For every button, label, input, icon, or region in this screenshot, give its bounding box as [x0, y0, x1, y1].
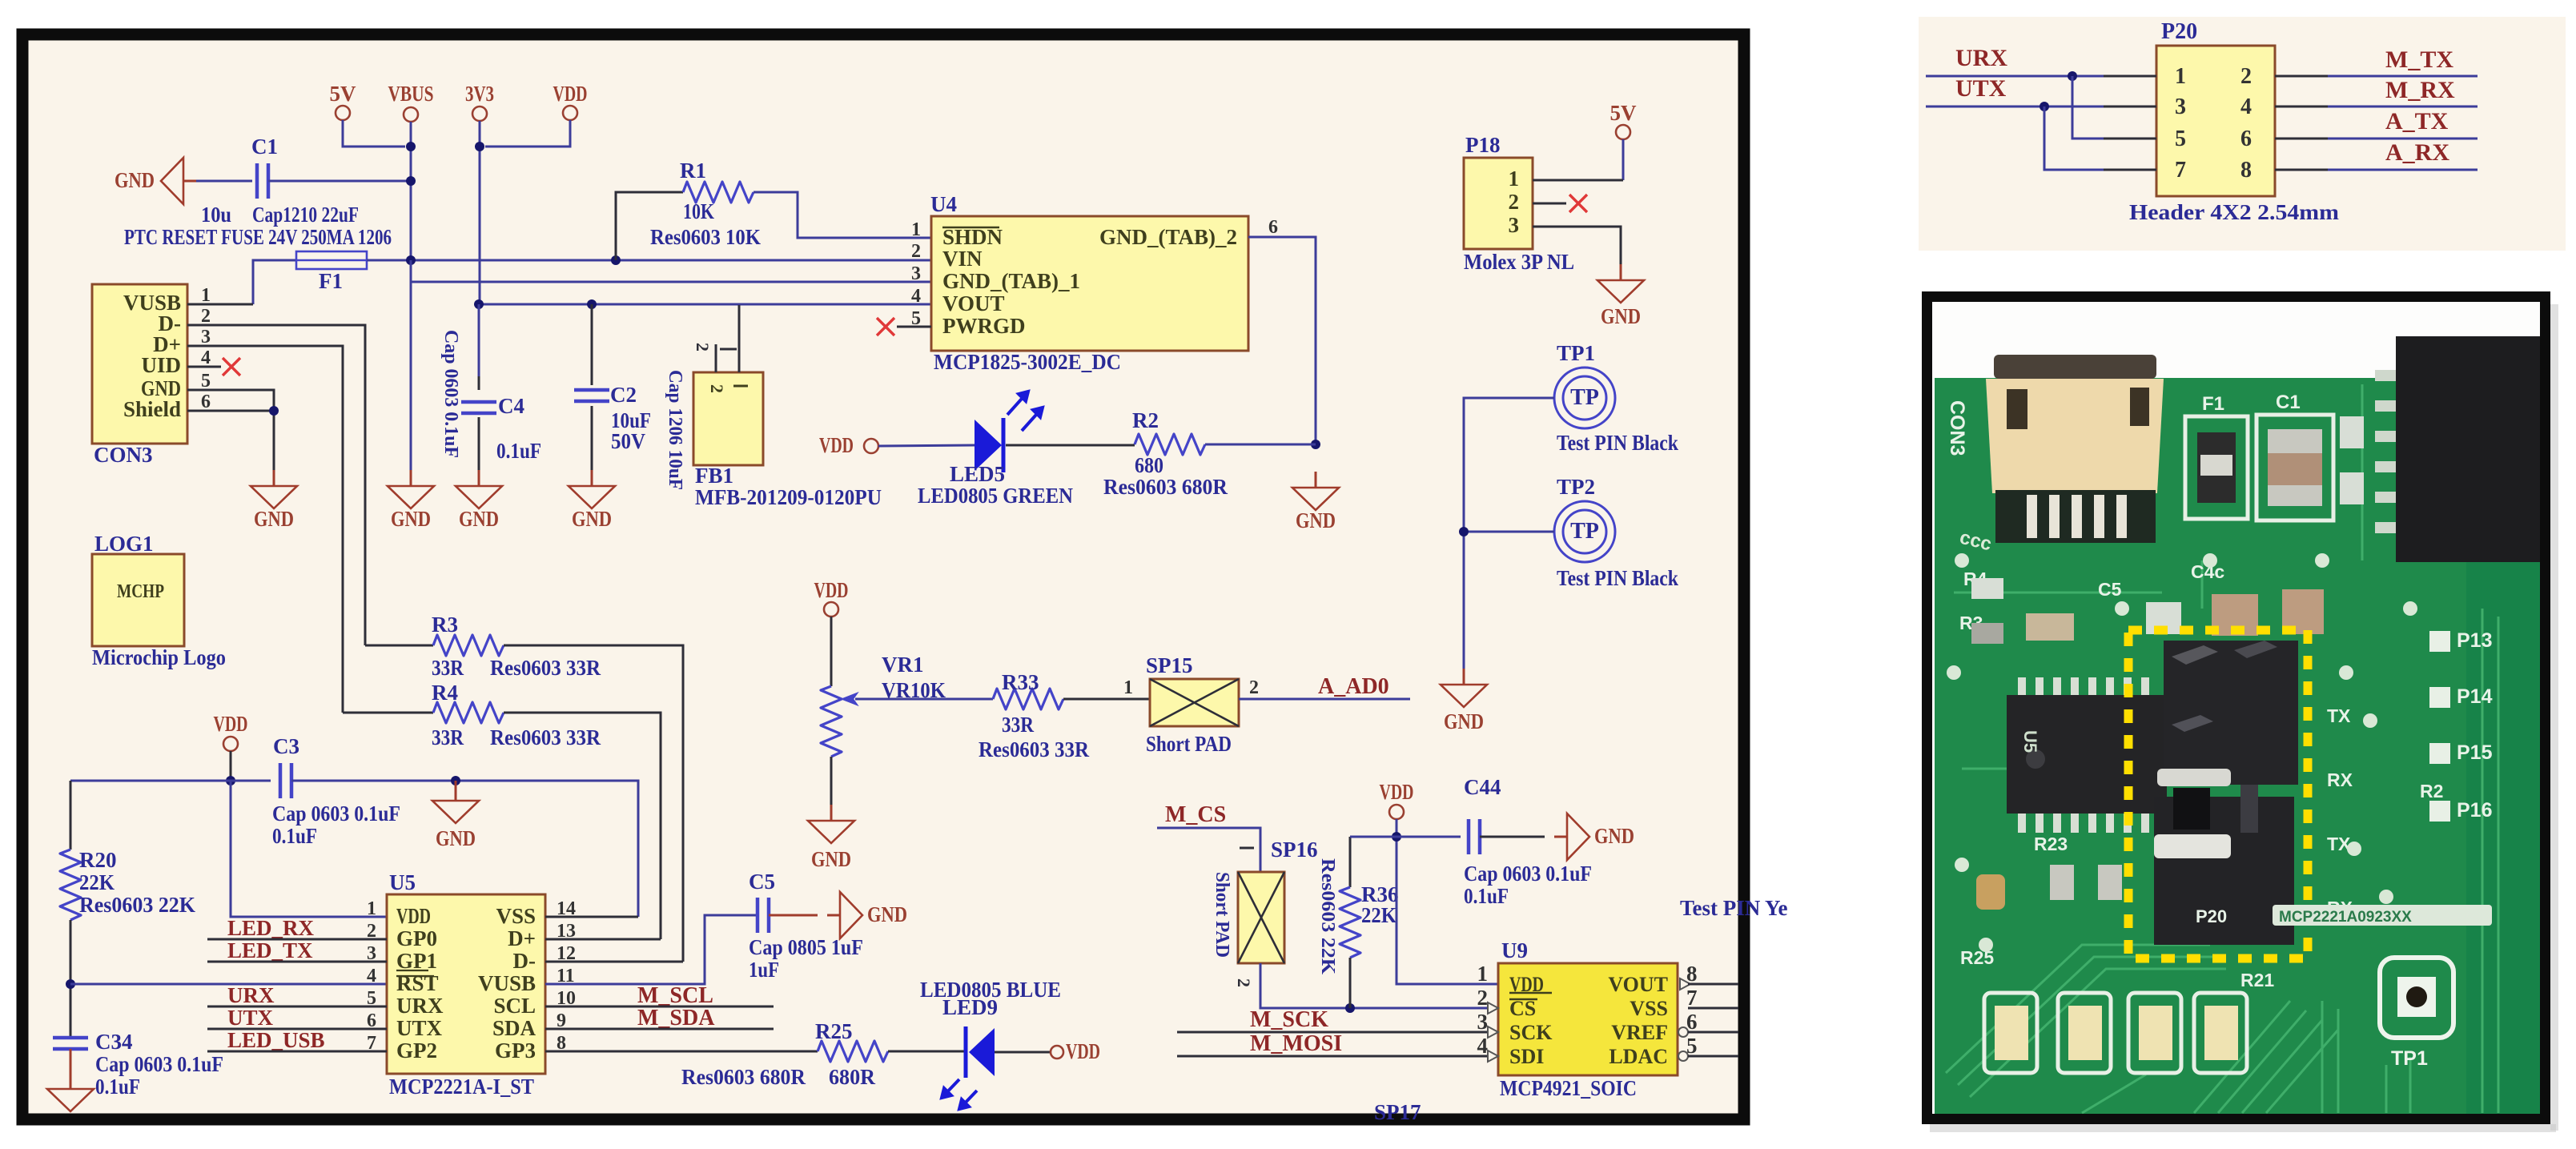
PCB photo frame	[1927, 297, 2559, 1133]
wire	[187, 410, 274, 412]
svg-text:VDD: VDD	[553, 82, 588, 106]
svg-text:URX: URX	[1955, 45, 2007, 71]
resistor R33	[979, 670, 1089, 761]
wire	[1464, 531, 1554, 533]
no connect	[223, 358, 240, 376]
wire	[1533, 227, 1621, 264]
svg-text:Cap 1206 10uF: Cap 1206 10uF	[665, 370, 685, 490]
wire	[1260, 963, 1498, 1008]
svg-text:Res0603 22K: Res0603 22K	[1317, 858, 1338, 974]
svg-text:2: 2	[1509, 190, 1520, 214]
wire pin2 stub	[1533, 203, 1566, 205]
svg-text:10u: 10u	[201, 203, 231, 227]
connector CON3	[92, 284, 211, 467]
label Cap1210 22uF	[252, 203, 359, 227]
svg-text:U9: U9	[1501, 938, 1528, 962]
svg-text:1: 1	[911, 219, 921, 240]
svg-text:1: 1	[367, 898, 376, 919]
svg-text:VDD: VDD	[814, 578, 849, 602]
schematic panel background	[17, 29, 1750, 1125]
svg-text:GND: GND	[1296, 508, 1336, 532]
svg-text:LED9: LED9	[942, 995, 998, 1019]
svg-text:2: 2	[2240, 64, 2252, 89]
svg-text:CON3: CON3	[1946, 400, 1968, 456]
svg-text:Res0603 33R: Res0603 33R	[979, 737, 1089, 761]
label PTC RESET FUSE	[124, 225, 392, 249]
svg-text:U5: U5	[2020, 730, 2040, 753]
resistor R2	[1103, 408, 1228, 499]
svg-text:4: 4	[911, 286, 921, 307]
wire	[1006, 444, 1135, 447]
svg-text:4: 4	[2240, 94, 2252, 119]
ground	[432, 781, 479, 850]
wire	[545, 961, 683, 963]
resistor R20	[60, 781, 195, 1038]
test point TP2	[1554, 475, 1678, 590]
svg-text:Microchip Logo: Microchip Logo	[92, 645, 226, 669]
svg-text:GND: GND	[391, 507, 431, 531]
svg-text:MCP1825-3002E_DC: MCP1825-3002E_DC	[934, 350, 1121, 374]
svg-text:GND: GND	[572, 507, 612, 531]
svg-text:CON3: CON3	[94, 443, 153, 467]
test point TP1	[1554, 341, 1678, 455]
svg-text:680R: 680R	[829, 1065, 875, 1089]
ground	[1554, 814, 1634, 860]
svg-text:Res0603 10K: Res0603 10K	[650, 225, 761, 249]
svg-text:R33: R33	[1002, 670, 1039, 694]
capacitor C1	[251, 135, 411, 199]
svg-text:LED_TX: LED_TX	[227, 938, 313, 962]
resistor R4	[343, 681, 661, 939]
svg-text:TX: TX	[2327, 705, 2351, 726]
svg-text:Test PIN Ye: Test PIN Ye	[1680, 896, 1788, 920]
svg-text:LOG1: LOG1	[94, 532, 154, 556]
svg-text:R21: R21	[2240, 970, 2274, 990]
svg-text:C1: C1	[251, 135, 278, 159]
svg-text:M_SCK: M_SCK	[1250, 1007, 1328, 1032]
power port VDD	[814, 578, 849, 686]
svg-text:22K: 22K	[79, 870, 115, 894]
svg-text:0.1uF: 0.1uF	[1464, 884, 1509, 908]
svg-text:TP1: TP1	[1557, 341, 1595, 365]
junction	[1392, 832, 1401, 842]
svg-text:MCHP: MCHP	[117, 581, 164, 602]
wire	[888, 1051, 964, 1053]
svg-text:GND_(TAB)_1: GND_(TAB)_1	[942, 269, 1080, 293]
junction	[1459, 527, 1469, 536]
wire	[411, 281, 931, 283]
junction	[406, 255, 416, 265]
IC U9 MCP4921_SOIC	[1477, 938, 1698, 1100]
wire pin6	[1248, 237, 1316, 444]
net label M_CS	[1165, 802, 1226, 827]
svg-text:4: 4	[367, 966, 376, 986]
wire	[187, 325, 365, 645]
svg-text:Res0603 22K: Res0603 22K	[79, 893, 195, 917]
svg-text:C44: C44	[1464, 775, 1501, 799]
wire	[1688, 1031, 1738, 1034]
junction	[406, 176, 416, 186]
svg-text:Cap 0603 0.1uF: Cap 0603 0.1uF	[440, 330, 461, 458]
svg-text:VDD: VDD	[1066, 1039, 1100, 1063]
PCB photo	[1932, 302, 2543, 1116]
svg-text:680: 680	[1135, 453, 1163, 477]
svg-text:VREF: VREF	[1611, 1021, 1668, 1044]
svg-text:C4: C4	[498, 394, 524, 418]
svg-text:6: 6	[201, 392, 211, 412]
svg-text:URX: URX	[396, 994, 444, 1018]
svg-text:TP2: TP2	[1557, 475, 1595, 499]
wire	[1063, 698, 1150, 701]
ground	[456, 470, 502, 531]
junction	[474, 299, 484, 309]
svg-text:Res0603 680R: Res0603 680R	[1103, 475, 1228, 499]
svg-text:VOUT: VOUT	[942, 291, 1004, 315]
junction	[66, 979, 75, 989]
short pad SP15	[1123, 653, 1259, 756]
wire	[2328, 106, 2478, 108]
svg-text:GND: GND	[115, 168, 155, 192]
svg-text:D+: D+	[508, 926, 536, 950]
svg-text:A_TX: A_TX	[2385, 108, 2449, 135]
junction	[2040, 102, 2049, 111]
svg-text:VDD: VDD	[214, 712, 248, 736]
wire	[2072, 76, 2104, 139]
svg-text:LED5: LED5	[950, 462, 1005, 486]
svg-text:Res0603 33R: Res0603 33R	[490, 656, 601, 680]
svg-text:C1: C1	[2276, 392, 2301, 413]
svg-text:GND: GND	[867, 902, 907, 926]
svg-text:4: 4	[201, 348, 211, 368]
svg-text:5: 5	[2175, 127, 2186, 151]
svg-text:U5: U5	[389, 870, 416, 894]
junction	[226, 776, 235, 785]
svg-text:VDD: VDD	[396, 904, 431, 928]
svg-text:0.1uF: 0.1uF	[272, 824, 317, 848]
svg-text:RX: RX	[2327, 769, 2353, 790]
wire	[545, 916, 638, 918]
svg-text:GP2: GP2	[396, 1039, 437, 1063]
svg-text:1: 1	[2175, 64, 2186, 89]
svg-text:VUSB: VUSB	[478, 971, 536, 995]
wire	[545, 915, 758, 984]
wire	[1157, 828, 1260, 872]
svg-text:C34: C34	[95, 1030, 133, 1054]
svg-text:UID: UID	[141, 353, 181, 377]
ground	[251, 470, 297, 531]
label 10u	[201, 203, 231, 227]
wire	[187, 390, 274, 470]
potentiometer VR1	[821, 653, 946, 805]
svg-text:SP17: SP17	[1374, 1100, 1421, 1124]
svg-text:8: 8	[2240, 158, 2252, 183]
svg-text:C2: C2	[610, 383, 637, 407]
wire	[1350, 836, 1461, 838]
svg-text:GND: GND	[436, 826, 476, 850]
svg-text:Molex 3P NL: Molex 3P NL	[1464, 250, 1574, 274]
svg-text:3: 3	[201, 327, 211, 348]
svg-text:2: 2	[693, 343, 713, 352]
short pad SP16	[1212, 838, 1318, 987]
net label M_TX	[2385, 46, 2453, 73]
resistor R1	[616, 159, 931, 260]
svg-text:33R: 33R	[432, 725, 464, 749]
svg-text:F1: F1	[2202, 393, 2224, 415]
net label LED_TX	[207, 938, 387, 962]
svg-text:C5: C5	[749, 870, 775, 894]
ground	[1597, 264, 1644, 328]
power port VDD	[1380, 780, 1499, 984]
svg-text:Res0603 33R: Res0603 33R	[490, 725, 601, 749]
svg-text:22K: 22K	[1361, 903, 1397, 927]
svg-text:Cap1210 22uF: Cap1210 22uF	[252, 203, 359, 227]
junction	[475, 142, 484, 151]
wire	[231, 781, 387, 917]
resistor R36	[1317, 837, 1399, 1008]
svg-text:SDA: SDA	[492, 1016, 536, 1040]
wire	[187, 346, 343, 713]
svg-text:1: 1	[1509, 167, 1520, 191]
wire	[1464, 398, 1554, 669]
svg-text:GND_(TAB)_2: GND_(TAB)_2	[1099, 225, 1237, 249]
svg-text:Shield: Shield	[123, 397, 181, 421]
svg-text:CS: CS	[1509, 997, 1536, 1020]
svg-text:RST: RST	[396, 971, 439, 995]
svg-text:0.1uF: 0.1uF	[496, 439, 541, 463]
svg-text:R20: R20	[79, 848, 117, 872]
power port 3V3	[465, 82, 494, 304]
svg-text:A_RX: A_RX	[2385, 139, 2449, 166]
power port 5V	[330, 82, 406, 147]
svg-text:MCP2221A-I_ST: MCP2221A-I_ST	[389, 1075, 534, 1099]
svg-text:2: 2	[707, 384, 727, 393]
junction	[451, 776, 460, 785]
svg-text:R2: R2	[2420, 781, 2443, 801]
wire	[410, 260, 412, 470]
connector P18 Molex	[1464, 133, 1574, 274]
svg-text:VSS: VSS	[496, 904, 536, 928]
svg-text:SP16: SP16	[1271, 838, 1318, 862]
svg-text:3: 3	[2175, 94, 2186, 119]
svg-text:LED_USB: LED_USB	[227, 1028, 325, 1052]
wire	[1239, 698, 1410, 701]
svg-text:Short PAD: Short PAD	[1212, 872, 1232, 958]
wire pin4 stub	[187, 366, 221, 368]
svg-text:LED_RX: LED_RX	[227, 916, 315, 940]
power port 5V	[1533, 101, 1637, 180]
wire	[1926, 75, 2104, 78]
header P20 4X2	[2129, 19, 2340, 224]
label Test PIN Yellow	[1680, 896, 1788, 920]
svg-text:F1: F1	[319, 269, 343, 293]
svg-text:PTC RESET FUSE 24V 250MA 1206: PTC RESET FUSE 24V 250MA 1206	[124, 225, 392, 249]
svg-text:R25: R25	[815, 1019, 853, 1043]
ground	[569, 470, 615, 531]
svg-text:5: 5	[201, 371, 211, 392]
wire	[291, 781, 638, 917]
capacitor C2	[574, 304, 651, 470]
net label M_SDA	[545, 1006, 774, 1030]
svg-text:GP1: GP1	[396, 949, 437, 973]
ground	[1292, 472, 1339, 532]
svg-text:TP1: TP1	[2391, 1047, 2428, 1070]
net label UTX	[1955, 75, 2007, 102]
svg-text:SCK: SCK	[1509, 1021, 1553, 1044]
svg-text:A_AD0: A_AD0	[1318, 674, 1389, 699]
wire	[545, 1051, 818, 1053]
svg-text:LED0805 GREEN: LED0805 GREEN	[918, 484, 1073, 508]
svg-text:7: 7	[1686, 986, 1698, 1010]
wire	[1688, 1055, 1738, 1058]
svg-text:R4: R4	[432, 681, 458, 705]
svg-text:2: 2	[911, 241, 921, 262]
svg-text:GND: GND	[811, 847, 851, 871]
svg-text:7: 7	[2175, 158, 2186, 183]
svg-text:Cap 0805 1uF: Cap 0805 1uF	[749, 935, 863, 959]
net label A_RX	[2385, 139, 2449, 166]
svg-text:MCP4921_SOIC: MCP4921_SOIC	[1500, 1076, 1637, 1100]
svg-text:6: 6	[2240, 127, 2252, 151]
svg-text:GND: GND	[1444, 709, 1484, 733]
svg-text:33R: 33R	[1002, 713, 1034, 737]
wire	[1926, 106, 2104, 108]
svg-text:GP3: GP3	[495, 1039, 536, 1063]
IC U5 MCP2221A-I_ST	[367, 870, 576, 1099]
junction	[587, 299, 597, 309]
junction	[269, 406, 279, 416]
ground	[827, 892, 907, 938]
svg-text:0.1uF: 0.1uF	[95, 1075, 140, 1099]
net label LED_RX	[207, 916, 387, 940]
IC U4 MCP1825-3002E	[911, 192, 1278, 374]
svg-text:URX: URX	[227, 983, 275, 1007]
svg-text:D-: D-	[513, 949, 536, 973]
svg-text:R23: R23	[2034, 834, 2068, 854]
svg-text:VSS: VSS	[1630, 997, 1668, 1020]
svg-text:GND: GND	[1594, 824, 1634, 848]
wire	[1688, 983, 1738, 986]
ground	[388, 470, 434, 531]
svg-text:P14: P14	[2457, 685, 2493, 708]
net label A_TX	[2385, 108, 2449, 135]
svg-text:TP: TP	[1570, 519, 1599, 544]
svg-text:5V: 5V	[1610, 101, 1638, 125]
svg-text:5V: 5V	[330, 82, 357, 106]
wire pin stubs left	[2104, 76, 2156, 170]
svg-text:TX: TX	[2327, 834, 2351, 854]
svg-text:SP15: SP15	[1146, 653, 1193, 677]
wire	[1688, 1007, 1738, 1010]
junction	[611, 255, 621, 265]
wire	[2328, 169, 2478, 171]
net label M_SCL	[545, 983, 774, 1008]
power port VBUS	[388, 82, 434, 260]
net label UTX	[207, 1006, 387, 1030]
ground	[808, 805, 854, 871]
svg-text:VR1: VR1	[882, 653, 924, 677]
svg-text:GND: GND	[254, 507, 294, 531]
svg-text:P20: P20	[2196, 906, 2227, 926]
svg-text:VDD: VDD	[819, 433, 854, 457]
no connect	[877, 318, 894, 335]
svg-text:VIN: VIN	[942, 247, 983, 271]
wire	[995, 1051, 1051, 1054]
svg-text:SDI: SDI	[1509, 1045, 1544, 1068]
svg-text:Res0603 680R: Res0603 680R	[681, 1065, 806, 1089]
P20 block background	[1919, 17, 2566, 251]
label SP17	[1374, 1100, 1421, 1124]
wire	[70, 780, 271, 782]
svg-text:50V: 50V	[611, 429, 645, 453]
wire	[253, 260, 296, 304]
net label URX	[1955, 45, 2007, 71]
wire	[2044, 106, 2104, 170]
svg-text:UTX: UTX	[396, 1016, 443, 1040]
power port VDD	[1051, 1039, 1100, 1063]
svg-text:Test PIN Black: Test PIN Black	[1557, 431, 1678, 455]
no connect	[1569, 195, 1587, 212]
svg-text:FB1: FB1	[695, 464, 733, 488]
svg-text:SHDN: SHDN	[942, 225, 1003, 249]
capacitor C34	[53, 1030, 223, 1099]
svg-text:VBUS: VBUS	[388, 82, 434, 106]
wire	[2328, 138, 2478, 140]
svg-text:Short PAD: Short PAD	[1146, 732, 1232, 756]
logo LOG1	[92, 532, 226, 669]
svg-text:2: 2	[1234, 978, 1254, 987]
svg-text:UTX: UTX	[227, 1006, 274, 1030]
wire	[479, 303, 931, 306]
svg-text:UTX: UTX	[1955, 75, 2007, 102]
junction	[1311, 440, 1320, 449]
svg-text:4: 4	[1477, 1034, 1489, 1058]
svg-text:TP: TP	[1570, 385, 1599, 410]
svg-text:SCL: SCL	[493, 994, 536, 1018]
svg-text:Cap 0603 0.1uF: Cap 0603 0.1uF	[272, 801, 400, 826]
svg-text:2: 2	[1249, 677, 1259, 698]
svg-text:MCP2221A0923XX: MCP2221A0923XX	[2279, 909, 2412, 926]
svg-text:6: 6	[1268, 217, 1278, 238]
power port VDD	[485, 82, 588, 147]
svg-text:10K: 10K	[683, 199, 714, 223]
svg-text:3: 3	[1509, 213, 1520, 237]
svg-text:VOUT: VOUT	[1608, 973, 1668, 996]
ground	[115, 158, 196, 204]
capacitor C44	[1464, 775, 1592, 908]
fuse F1	[296, 251, 367, 293]
svg-text:1: 1	[201, 285, 211, 306]
svg-text:VDD: VDD	[1380, 780, 1414, 804]
wire	[1205, 444, 1316, 446]
junction	[1345, 1003, 1355, 1013]
svg-text:2: 2	[201, 306, 211, 327]
wire	[187, 303, 253, 306]
LED LED9	[920, 978, 1061, 1109]
svg-text:3: 3	[911, 263, 921, 284]
wire pin stubs right	[2275, 76, 2328, 170]
label 0.1uF	[496, 439, 541, 463]
svg-text:P13: P13	[2457, 629, 2492, 652]
net label LED_USB	[207, 1028, 387, 1052]
wire	[855, 698, 993, 701]
power port VDD	[819, 433, 975, 457]
svg-text:M_TX: M_TX	[2385, 46, 2453, 73]
ferrite bead FB1	[665, 305, 882, 509]
svg-text:C5: C5	[2098, 579, 2122, 600]
svg-text:GND: GND	[1601, 304, 1641, 328]
wire	[367, 259, 931, 262]
net label M_MOSI	[1177, 1031, 1498, 1056]
